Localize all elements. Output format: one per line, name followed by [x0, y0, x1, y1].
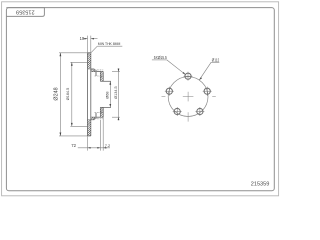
label 5XØ15.5 underline — [152, 59, 167, 61]
leader arrow top hole — [183, 72, 186, 75]
title box top-left — [6, 8, 44, 17]
bolt circle — [168, 77, 208, 117]
ring OD top edge — [88, 52, 91, 54]
arrow Ø134.5 top — [118, 69, 120, 72]
bore lower edge — [100, 106, 111, 108]
svg-text:72: 72 — [71, 143, 76, 148]
bottom dim extension face left — [99, 120, 101, 151]
label Ø112 underline — [211, 61, 219, 63]
ring hatch upper — [88, 53, 91, 69]
svg-text:Ø248: Ø248 — [54, 87, 60, 100]
note underline — [97, 45, 122, 47]
mounting face right line lower — [102, 107, 104, 117]
note leader — [91, 46, 97, 53]
svg-text:7.2: 7.2 — [105, 143, 110, 148]
bolt hole upper wall mark left — [95, 70, 97, 76]
bolt hole lower wall mark right — [96, 113, 98, 119]
arrow Ø68 bottom — [109, 104, 111, 107]
hat upper wall top line — [91, 68, 95, 70]
arrow height right — [97, 147, 100, 149]
dim 10 extension left — [87, 36, 89, 53]
arrow Ø68 top — [109, 81, 111, 84]
svg-text:215359: 215359 — [16, 9, 35, 15]
arrow 10 left — [84, 38, 87, 40]
mounting face left line upper — [99, 72, 101, 82]
bolt hole upper-left — [165, 87, 174, 96]
bolt hole lower hidden line bottom — [95, 118, 104, 120]
arrow Ø134.5 bottom — [118, 117, 120, 120]
hat upper wall hatch — [91, 69, 94, 71]
hat lower wall step — [93, 117, 95, 120]
leader to bolt circle — [199, 62, 211, 80]
ring outboard face — [87, 53, 89, 136]
dim 10 line right — [91, 38, 98, 40]
bottom dim extension ring face — [87, 136, 89, 150]
hub center cross horizontal — [183, 96, 194, 98]
bolt hole lower-left — [173, 107, 182, 116]
dim Ø164.5 extension bottom — [70, 125, 88, 127]
bolt hole upper hidden line bottom — [95, 75, 104, 77]
horizontal centerline right dash — [212, 96, 216, 98]
mounting face hatch lower — [101, 108, 104, 118]
arrow 10 right — [91, 38, 94, 40]
bolt hole upper wall mark right — [96, 70, 98, 76]
svg-text:Ø164.5: Ø164.5 — [66, 88, 70, 100]
ring inboard face — [90, 53, 92, 136]
bolt hole top — [184, 72, 193, 81]
mounting face hatch upper — [101, 72, 104, 82]
arrow Ø164.5 bottom — [71, 123, 73, 126]
vertical centerline bottom segment — [187, 112, 189, 121]
bottom dim line — [78, 147, 110, 149]
svg-text:Ø134.5: Ø134.5 — [114, 86, 118, 98]
leader arrow bolt circle — [199, 77, 202, 80]
arrow flange right — [103, 147, 106, 149]
dim Ø164.5 extension top — [70, 61, 88, 63]
outer page frame — [2, 2, 279, 196]
arrow height left — [88, 147, 91, 149]
dim Ø248 extension bottom — [59, 135, 88, 137]
bore upper edge — [100, 80, 111, 82]
hat upper shoulder line — [91, 71, 103, 73]
dim Ø248 extension top — [59, 52, 88, 54]
ring OD bottom edge — [88, 135, 91, 137]
ring hatch lower — [88, 120, 91, 136]
dim 10 extension right — [90, 36, 92, 53]
dim Ø134.5 extension top — [112, 71, 120, 73]
arrow Ø248 bottom — [60, 133, 62, 136]
dim Ø164.5 line — [71, 62, 73, 126]
hat lower shoulder line — [91, 116, 103, 118]
bolt hole upper hidden line top — [95, 69, 104, 71]
svg-text:215359: 215359 — [251, 181, 270, 187]
hat lower wall bottom line — [91, 119, 95, 121]
arrow Ø164.5 top — [71, 62, 73, 65]
horizontal centerline left dash — [162, 96, 166, 98]
leader to top hole — [167, 60, 186, 75]
dim 10 line left — [83, 38, 88, 40]
dim Ø134.5 extension bottom — [112, 116, 120, 118]
bolt hole upper-right — [203, 87, 212, 96]
arrow Ø248 top — [60, 53, 62, 56]
svg-text:10: 10 — [80, 36, 85, 41]
dim Ø134.5 line — [118, 68, 120, 120]
svg-text:5XØ15.5: 5XØ15.5 — [154, 55, 168, 60]
bolt hole lower-right — [195, 107, 204, 116]
dim Ø248 line — [59, 53, 61, 136]
bolt hole lower hidden line top — [95, 112, 104, 114]
svg-text:Ø68: Ø68 — [106, 92, 110, 99]
bottom dim extension face right — [102, 117, 104, 150]
drawing border frame — [6, 8, 274, 191]
hat upper wall step — [93, 69, 95, 72]
svg-text:Ø112: Ø112 — [212, 58, 220, 63]
bolt hole lower wall mark left — [95, 113, 97, 119]
hub center cross vertical — [187, 92, 189, 102]
hat lower wall hatch — [91, 117, 94, 119]
dim Ø68 line — [109, 81, 111, 107]
svg-text:MIN THK 8MM: MIN THK 8MM — [98, 41, 121, 46]
mounting face right line upper — [102, 72, 104, 82]
mounting face left line lower — [99, 107, 101, 117]
